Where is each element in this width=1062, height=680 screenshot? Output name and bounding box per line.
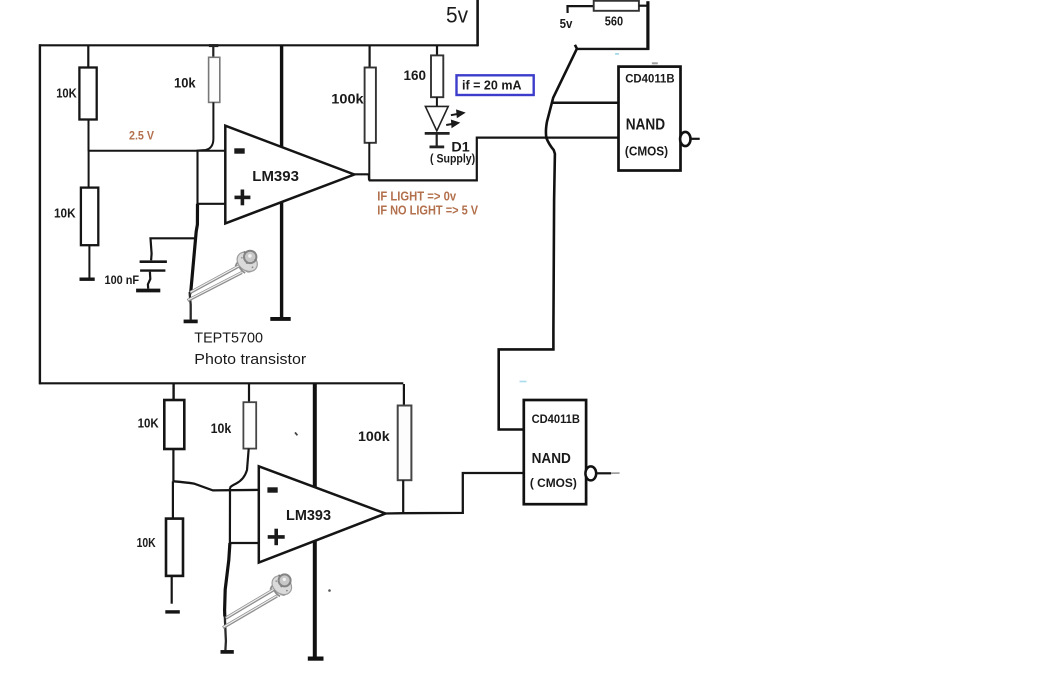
resistor R2 10K xyxy=(81,151,98,278)
wire thick ground line (U3 power) xyxy=(313,384,317,657)
wire horizontal to wavy xyxy=(576,48,650,50)
resistor R3 10k xyxy=(197,44,220,150)
svg-text:5v: 5v xyxy=(446,2,468,27)
resistor R5 160 xyxy=(431,45,443,106)
phototransistor Q1 TEPT5700 clipart xyxy=(188,248,262,300)
svg-text:10K: 10K xyxy=(138,415,160,430)
wire 5v feed vertical xyxy=(476,0,479,46)
ground under C1 xyxy=(136,289,160,293)
artifact cyan dash left of U2 xyxy=(615,53,619,55)
resistor R1 10K xyxy=(79,45,96,151)
svg-text:D1: D1 xyxy=(451,138,470,154)
wire U3 output to NAND2 input xyxy=(386,473,524,514)
label box if = 20 mA xyxy=(457,75,534,95)
op-amp U3 LM393 xyxy=(259,466,386,562)
wire reference node to U3 minus xyxy=(173,481,259,490)
svg-text:CD4011B: CD4011B xyxy=(532,414,580,426)
wire NAND1 input 1 xyxy=(553,102,619,105)
wire U2 output xyxy=(691,138,700,140)
resistor R8 10K xyxy=(166,481,183,603)
svg-text:CD4011B: CD4011B xyxy=(625,71,675,85)
wire second rail xyxy=(39,382,403,384)
ground under R8 xyxy=(165,610,180,613)
svg-text:10K: 10K xyxy=(56,85,77,100)
wire U1 output to NAND1 input xyxy=(354,138,618,181)
wire plus input xyxy=(198,203,226,205)
wire 5v to R6 xyxy=(568,6,594,13)
D1 light arrows xyxy=(446,111,463,127)
svg-text:2.5 V: 2.5 V xyxy=(129,129,154,143)
resistor R10 100k xyxy=(398,384,412,513)
artifact gray tick above U2 xyxy=(652,62,658,64)
resistor R9 10k xyxy=(230,384,256,488)
svg-text:Photo transistor: Photo transistor xyxy=(194,351,306,368)
svg-text:NAND: NAND xyxy=(532,450,571,467)
svg-text:( CMOS): ( CMOS) xyxy=(530,476,577,490)
resistor R7 10K xyxy=(164,384,184,481)
svg-text:100 nF: 100 nF xyxy=(105,273,140,287)
gate U4 CD4011B NAND xyxy=(524,400,586,504)
svg-text:LM393: LM393 xyxy=(286,508,331,524)
gate U2 CD4011B NAND xyxy=(619,67,681,171)
svg-text:100k: 100k xyxy=(331,90,364,106)
op-amp U1 LM393 xyxy=(225,126,354,224)
U3 plus symbol xyxy=(268,529,285,546)
svg-text:5v: 5v xyxy=(560,17,573,31)
wire inverting/non-inverting link vertical xyxy=(196,151,198,204)
wire wavy pull-up net down to NAND2 xyxy=(499,45,577,430)
resistor R4 100k xyxy=(365,45,376,180)
svg-text:TEPT5700: TEPT5700 xyxy=(194,329,263,346)
ground bar xyxy=(308,656,324,660)
wire to phototransistor Q2 xyxy=(225,543,230,617)
U4 output bubble xyxy=(585,466,596,480)
svg-text:( Supply): ( Supply) xyxy=(430,153,475,165)
svg-text:if = 20 mA: if = 20 mA xyxy=(462,77,522,92)
svg-text:IF LIGHT => 0v: IF LIGHT => 0v xyxy=(377,190,456,204)
U2 output bubble xyxy=(680,132,690,146)
wire left border xyxy=(39,44,41,384)
wire to phototransistor Q1 xyxy=(190,204,198,294)
svg-text:10K: 10K xyxy=(137,535,157,550)
U1 plus symbol xyxy=(235,190,251,206)
wire U3 plus input link xyxy=(230,488,259,544)
artifact cyan dash xyxy=(520,381,527,383)
ground under Q2 xyxy=(221,650,234,654)
U3 minus symbol xyxy=(267,487,277,492)
svg-text:NAND: NAND xyxy=(626,116,665,133)
svg-text:LM393: LM393 xyxy=(252,168,299,185)
svg-text:100k: 100k xyxy=(358,428,390,444)
svg-text:160: 160 xyxy=(404,67,427,83)
ground under Q1 xyxy=(184,320,198,324)
resistor R6 560 xyxy=(594,1,639,11)
wire 5v top rail xyxy=(39,44,478,46)
ground bar xyxy=(270,317,290,321)
phototransistor Q2 TEPT5700 clipart xyxy=(223,572,295,628)
ground under R2 xyxy=(80,278,95,281)
wire thick corner vertical xyxy=(646,1,649,50)
artifact tick xyxy=(295,432,297,435)
svg-text:IF NO LIGHT => 5 V: IF NO LIGHT => 5 V xyxy=(377,204,478,218)
artifact dot xyxy=(328,589,331,592)
svg-text:560: 560 xyxy=(605,13,623,28)
svg-text:10k: 10k xyxy=(174,76,196,91)
capacitor C1 100nF xyxy=(140,238,197,288)
node 2.5V wire xyxy=(88,150,225,152)
LED D1 xyxy=(425,106,450,146)
svg-text:10k: 10k xyxy=(211,421,232,436)
wire thick ground line (U1 power) xyxy=(280,46,283,318)
wire R6 to corner xyxy=(639,5,648,7)
svg-text:10K: 10K xyxy=(54,206,76,221)
U1 minus symbol xyxy=(234,148,244,153)
wire U4 output xyxy=(596,472,611,474)
svg-text:(CMOS): (CMOS) xyxy=(625,144,668,158)
